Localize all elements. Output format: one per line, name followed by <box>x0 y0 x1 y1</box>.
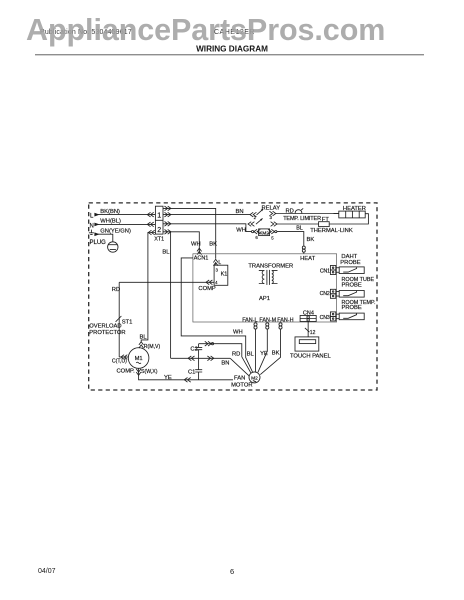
plug P1 <box>90 240 119 252</box>
svg-text:COMP: COMP <box>198 286 216 292</box>
capacitor C2 <box>190 344 202 359</box>
svg-text:K1: K1 <box>221 272 228 278</box>
wire heater return <box>329 214 368 224</box>
svg-text:BN: BN <box>221 361 229 367</box>
svg-text:PROBE: PROBE <box>342 305 362 311</box>
svg-text:BK: BK <box>209 242 217 248</box>
svg-text:CN1: CN1 <box>320 269 330 275</box>
svg-text:GN(YE/GN): GN(YE/GN) <box>100 229 131 235</box>
svg-text:MOTOR: MOTOR <box>231 382 252 388</box>
wire BL relay to thermal link <box>277 224 319 231</box>
svg-text:N: N <box>90 224 94 230</box>
thermal link FT <box>310 217 353 234</box>
connector CN2 <box>320 289 336 298</box>
node L <box>90 213 100 220</box>
svg-text:PROTECTOR: PROTECTOR <box>89 330 125 336</box>
svg-text:WH: WH <box>233 330 243 336</box>
svg-text:CN3: CN3 <box>320 315 330 321</box>
svg-text:4: 4 <box>215 280 218 285</box>
svg-text:04/07: 04/07 <box>38 568 56 575</box>
transformer T1 <box>248 263 293 285</box>
svg-text:WIRING DIAGRAM: WIRING DIAGRAM <box>196 44 268 53</box>
room temp probe RT3 <box>339 300 375 320</box>
connector HEAT <box>302 246 305 254</box>
connector CN1 <box>320 266 336 275</box>
svg-text:AppliancePartsPros.com: AppliancePartsPros.com <box>26 13 385 47</box>
svg-text:3: 3 <box>216 267 219 272</box>
ground terminal symbol <box>89 230 100 237</box>
wire BK(BN) L to XT1 <box>97 209 155 217</box>
wire YE FAN-M to motor <box>258 323 269 372</box>
svg-text:6: 6 <box>255 235 258 240</box>
fan motor M2 <box>231 372 260 388</box>
wire XT1-2 to ACN1 (WH) and BL branch <box>163 230 202 255</box>
connector CN4 <box>300 311 316 322</box>
svg-text:KM2: KM2 <box>259 230 269 235</box>
svg-text:RD: RD <box>232 351 240 357</box>
wire BK KM2 to HEAT <box>277 232 314 246</box>
terminal block XT1 <box>154 206 164 242</box>
svg-text:BK: BK <box>272 350 280 356</box>
wire to compressor C terminal <box>112 355 128 365</box>
heater EL1 <box>334 206 366 218</box>
wire BL to BN junction <box>171 356 231 367</box>
svg-text:12: 12 <box>310 330 316 336</box>
wire BN to fan motor <box>230 358 249 376</box>
svg-text:BL: BL <box>162 249 170 255</box>
relay contact 2-3 <box>257 206 281 220</box>
wire RD relay to heater <box>276 208 339 214</box>
svg-text:RELAY: RELAY <box>262 206 281 212</box>
temp limiter FT1 symbol <box>283 208 321 221</box>
connector KM2 left <box>252 229 261 240</box>
touch panel A1 <box>290 337 331 360</box>
wire BN XT1-1 to relay <box>163 209 257 220</box>
wire COMP K1 to compressor <box>112 280 216 357</box>
wire BK FAN-H to motor <box>260 323 282 375</box>
svg-text:TRANSFORMER: TRANSFORMER <box>248 263 293 269</box>
wire CN1 to DAHT probe <box>336 268 339 273</box>
wire WH ACN1 to fan motor <box>181 258 252 372</box>
svg-text:WH(BL): WH(BL) <box>100 219 121 225</box>
relay contact 4 (BL side) <box>248 218 277 226</box>
svg-text:PROBE: PROBE <box>342 283 362 289</box>
svg-text:BK(BN): BK(BN) <box>100 209 120 215</box>
wire WH(BL) N to XT1 <box>97 219 155 227</box>
svg-text:S(W,X): S(W,X) <box>141 369 158 375</box>
svg-text:YE: YE <box>164 375 172 381</box>
svg-text:PROBE: PROBE <box>340 260 360 266</box>
wire CN3 to room temp probe <box>336 314 339 319</box>
svg-text:BL: BL <box>247 351 255 357</box>
svg-text:TEMP. LIMITER: TEMP. LIMITER <box>283 216 321 222</box>
svg-text:OVERLOAD: OVERLOAD <box>89 323 121 329</box>
wire BL FAN-L to motor <box>247 323 257 372</box>
svg-text:ST1: ST1 <box>122 320 133 326</box>
svg-text:CN2: CN2 <box>320 291 330 297</box>
svg-text:BK: BK <box>307 237 315 243</box>
control board AP1 <box>193 254 337 322</box>
wire XT1-1 top to K1 coil (BK) <box>163 206 221 266</box>
svg-text:BL: BL <box>140 335 148 341</box>
wire RD C2 to fan motor <box>199 341 251 372</box>
relay KM2 <box>259 229 270 236</box>
connector CN3 <box>320 312 336 321</box>
overload protector ST1 <box>89 316 132 336</box>
wire CN4 to touch panel pin 12 <box>305 322 316 337</box>
svg-text:RD: RD <box>286 208 294 214</box>
svg-text:WH: WH <box>191 241 201 247</box>
svg-text:FT: FT <box>322 217 330 223</box>
svg-text:HEAT: HEAT <box>300 256 315 262</box>
wire WH XT1-2 to KM2 <box>163 222 251 234</box>
relay K1 <box>214 265 228 285</box>
svg-text:YE: YE <box>260 351 268 357</box>
svg-text:FAN-H: FAN-H <box>277 317 293 323</box>
svg-text:WH: WH <box>236 227 246 233</box>
svg-text:6: 6 <box>230 567 234 576</box>
svg-text:BN: BN <box>236 209 244 215</box>
svg-text:C1: C1 <box>188 370 195 376</box>
wire CN2 to room tube probe <box>336 292 339 297</box>
room tube probe RT2 <box>339 277 374 297</box>
svg-text:AP1: AP1 <box>259 296 270 302</box>
capacitor C1 <box>188 358 202 380</box>
node N <box>90 223 100 230</box>
svg-text:2: 2 <box>254 215 257 220</box>
wire YE compressor S to C1 <box>136 368 233 382</box>
header rule <box>35 54 424 56</box>
svg-text:BL: BL <box>296 225 303 231</box>
svg-text:COMP.: COMP. <box>117 368 136 374</box>
compressor M1 <box>117 348 149 375</box>
svg-text:TOUCH PANEL: TOUCH PANEL <box>290 354 331 360</box>
svg-text:RD: RD <box>112 287 120 293</box>
svg-text:FAN: FAN <box>234 376 245 382</box>
svg-text:THERMAL-LINK: THERMAL-LINK <box>310 228 353 234</box>
svg-text:2: 2 <box>157 227 161 234</box>
diagram dashed border <box>89 203 377 390</box>
fan speed labels <box>242 317 293 323</box>
wire GN(YE/GN) to plug <box>97 229 131 242</box>
svg-text:ACN1: ACN1 <box>194 256 209 262</box>
svg-text:3: 3 <box>270 215 273 220</box>
svg-text:C(T,U): C(T,U) <box>112 358 127 364</box>
svg-text:L: L <box>90 213 94 219</box>
svg-text:PLUG: PLUG <box>90 240 107 246</box>
svg-text:FAN-M: FAN-M <box>259 317 276 323</box>
svg-text:1: 1 <box>157 212 161 219</box>
svg-text:XT1: XT1 <box>154 237 164 243</box>
svg-text:FAN-L: FAN-L <box>242 317 257 323</box>
wire BL down branch <box>162 232 170 358</box>
svg-text:M1: M1 <box>135 356 143 362</box>
svg-text:5: 5 <box>271 235 274 240</box>
DAHT probe RT1 <box>339 254 364 273</box>
svg-text:R(M,V): R(M,V) <box>144 344 161 350</box>
connector KM2 right <box>268 229 277 240</box>
wire XT1 bottom-left to compressor BL branch <box>139 230 161 350</box>
